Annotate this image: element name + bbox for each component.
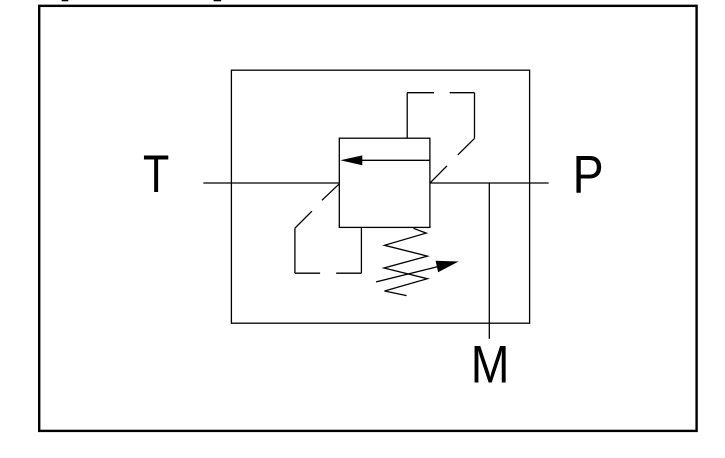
drain bottom dash 1 (295, 272, 320, 274)
flow arrow shaft inside valve (361, 159, 430, 161)
drain diagonal dash 2 (295, 211, 312, 228)
spring (384, 228, 427, 295)
pilot line top dash 1 (407, 92, 434, 94)
svg-text:M: M (471, 336, 510, 395)
top edge text remnant 2 (214, 0, 222, 1)
svg-text:T: T (143, 145, 169, 204)
pilot diagonal dash 1 (458, 138, 475, 154)
pilot line right vertical (474, 93, 476, 139)
pilot line vertical from valve top (406, 93, 408, 139)
adjustment arrow head (436, 261, 459, 272)
drain left vertical (294, 228, 296, 273)
adjustment arrow shaft (376, 266, 441, 282)
pilot diagonal dash 2 (430, 166, 447, 183)
wire M gauge line (488, 183, 490, 339)
drain bottom dash 2 (336, 272, 361, 274)
flow arrow head (340, 155, 362, 165)
drain riser to valve bottom (360, 227, 362, 273)
top edge text remnant 1 (62, 0, 69, 1)
drain diagonal dash 1 (322, 184, 339, 200)
wire port line P side (430, 182, 549, 184)
valve envelope box (231, 70, 529, 323)
svg-text:P: P (573, 145, 604, 204)
pilot line top dash 2 (450, 92, 475, 94)
wire port line T side (203, 182, 339, 184)
valve body square (339, 138, 430, 227)
